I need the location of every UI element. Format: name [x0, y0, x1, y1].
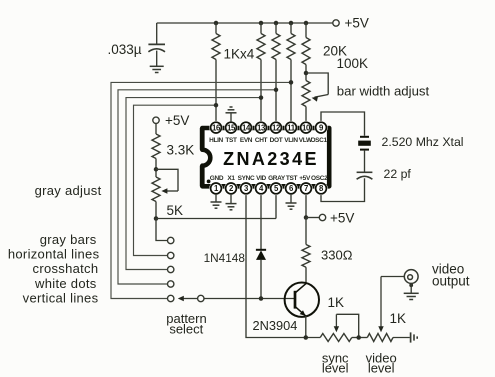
svg-text:ZNA234E: ZNA234E	[223, 149, 319, 169]
connector J1 video output	[404, 262, 469, 289]
resistor R6 3.3K	[152, 134, 194, 159]
junction: pin13 column	[259, 95, 264, 100]
wire: vertical-lines net (pin11)	[111, 82, 291, 298]
U1 pin 16	[209, 121, 222, 134]
U1 pin 1	[209, 182, 222, 195]
wire: pin 1 to ground	[215, 194, 217, 202]
U1 pin 15	[224, 121, 237, 134]
junction: +5V node	[304, 215, 309, 220]
svg-text:horizontal lines: horizontal lines	[8, 247, 100, 262]
svg-text:100K: 100K	[337, 56, 369, 71]
junction: emitter / rail	[304, 335, 309, 340]
potentiometer VR1 100K	[302, 56, 368, 107]
U1 pin 9	[314, 121, 327, 134]
terminal: gray bars	[168, 237, 174, 243]
wire: +5V node to R7	[305, 218, 307, 245]
svg-text:1K: 1K	[328, 295, 345, 310]
junction: R5 / VR1 wiper	[304, 71, 309, 76]
label bar width adjust	[337, 84, 430, 99]
svg-text:1Kx4: 1Kx4	[224, 47, 255, 62]
terminal: white dots	[168, 281, 174, 287]
arrow: VR1 wiper	[312, 95, 329, 102]
U1 pin 4	[254, 182, 267, 195]
wire: R6 to VR2	[155, 159, 157, 178]
resistor R5 20K	[302, 23, 347, 65]
svg-text:5K: 5K	[167, 203, 184, 218]
U1 pin 11	[284, 121, 297, 134]
svg-text:select: select	[169, 321, 203, 336]
svg-text:1N4148: 1N4148	[204, 251, 246, 265]
svg-text:OSC1: OSC1	[310, 137, 327, 144]
U1 pin 10	[299, 121, 312, 134]
svg-text:+5V: +5V	[330, 210, 354, 225]
resistor R2 1K (pin13 CHT)	[257, 23, 265, 60]
wire: VR1 wiper loop	[306, 73, 328, 95]
U1 pin 12	[269, 121, 282, 134]
label crosshatch	[33, 261, 99, 276]
wire: white-dots net (pin12)	[118, 90, 276, 284]
resistor R4 1K (pin11 VLIN)	[287, 23, 295, 60]
wire: R2 to pin 13	[260, 60, 262, 123]
junction: rail / R3	[274, 21, 279, 26]
terminal: +5V (gray adjust)	[153, 113, 190, 128]
svg-text:VLIN: VLIN	[284, 137, 298, 144]
svg-text:EVN: EVN	[240, 137, 253, 144]
potentiometer VR3 1K (sync level)	[320, 295, 352, 342]
potentiometer VR4 1K (video level)	[367, 311, 406, 342]
U1 top pin names	[209, 137, 327, 144]
wire: pin 3 SYNC down	[246, 194, 320, 338]
terminal: +5V (bottom)	[319, 210, 354, 225]
svg-text:GRAY: GRAY	[268, 175, 286, 182]
diode D1 1N4148	[204, 250, 267, 265]
wire: R3 to pin 12	[275, 60, 277, 123]
wire: pin 15 to ground	[230, 113, 232, 122]
wire: VR3 wiper loop	[336, 314, 358, 337]
svg-text:16: 16	[212, 123, 221, 132]
svg-text:gray bars: gray bars	[40, 232, 97, 247]
svg-text:level: level	[322, 360, 349, 375]
wire: pin 2 to ground	[230, 194, 232, 204]
label pattern select	[166, 311, 206, 337]
svg-text:gray adjust: gray adjust	[35, 183, 102, 198]
junction: rail / R4	[289, 21, 294, 26]
junction: R6 / VR2	[154, 167, 159, 172]
label gray adjust	[35, 183, 102, 198]
wire: gray node to pin 5	[156, 218, 276, 220]
U1 pin 7	[299, 182, 312, 195]
ground (pin 6)	[286, 203, 297, 209]
svg-text:white dots: white dots	[34, 276, 97, 291]
transistor Q1 2N3904	[253, 283, 319, 334]
wire: R5 to VR1	[305, 65, 307, 81]
junction: gray node	[154, 216, 159, 221]
svg-text:HLIN: HLIN	[209, 137, 223, 144]
U1 pin 14	[239, 121, 252, 134]
svg-text:+5V: +5V	[345, 16, 369, 31]
junction: rail / R5	[304, 21, 309, 26]
wire: +5V to R6	[155, 124, 157, 135]
junction: VR3/VR4 node	[356, 335, 361, 340]
ground (pin 15, inverted)	[226, 107, 237, 113]
capacitor C1 .033µ	[107, 42, 165, 57]
svg-text:X1: X1	[227, 175, 235, 182]
wire: C1 to ground	[156, 51, 158, 67]
arrow: VR3 wiper	[334, 314, 339, 332]
wire: D1 to base node	[260, 260, 262, 299]
label 1Kx4	[224, 47, 255, 62]
U1 bottom pin names	[210, 175, 328, 182]
wire: pin 6 to ground	[290, 194, 292, 203]
label white dots	[34, 276, 97, 291]
label gray bars	[40, 232, 97, 247]
capacitor C2 22 pf	[357, 167, 412, 181]
svg-text:11: 11	[287, 123, 296, 132]
wire: pin 4 to D1	[260, 194, 262, 250]
wire: VR3 to VR4	[352, 337, 368, 339]
svg-text:14: 14	[242, 123, 251, 132]
svg-text:TST: TST	[225, 137, 237, 144]
svg-text:CHT: CHT	[255, 137, 268, 144]
wire: rail to C1	[156, 23, 158, 44]
switch: pattern select pole	[198, 295, 204, 301]
arrow: VR4 wiper	[378, 277, 383, 333]
junction: D1 / pattern wire	[259, 296, 264, 301]
U1 pin 6	[284, 182, 297, 195]
svg-text:TST: TST	[286, 175, 298, 182]
svg-text:VID: VID	[256, 175, 266, 182]
potentiometer VR2 5K (gray adjust)	[152, 177, 183, 218]
U1 pin 8	[314, 182, 327, 195]
junction: pin11 column	[289, 80, 294, 85]
svg-text:crosshatch: crosshatch	[33, 261, 99, 276]
ground (C1)	[150, 66, 164, 72]
junction: rail / R2	[259, 21, 264, 26]
terminal: vertical lines	[168, 295, 174, 301]
svg-text:output: output	[432, 273, 470, 288]
ground (pin 1)	[211, 202, 222, 208]
ground (J1)	[404, 293, 419, 299]
op-amp U1 ZNA234E body	[201, 128, 329, 186]
label U1 ZNA234E	[223, 149, 319, 169]
svg-text:1K: 1K	[390, 311, 407, 326]
wire: jack to ground	[409, 283, 413, 293]
wire: crosshatch net (pin13)	[126, 98, 261, 270]
resistor R7 330Ω	[302, 245, 353, 268]
wire: gray node to gray-bars terminal	[156, 219, 167, 241]
wire: crystal to C2	[364, 151, 366, 172]
junction: pin12 column	[274, 88, 279, 93]
wire: pin 7 to +5V node	[305, 194, 307, 218]
wire: VR2 wiper loop	[156, 169, 178, 191]
svg-text:DOT: DOT	[270, 137, 283, 144]
svg-text:+5V: +5V	[165, 113, 189, 128]
svg-text:7: 7	[304, 184, 308, 193]
svg-text:12: 12	[272, 123, 281, 132]
wire: R4 to pin 11	[290, 60, 292, 123]
arrow: VR2 wiper	[161, 188, 178, 193]
wire: VR4 to termination	[393, 337, 410, 339]
svg-text:13: 13	[257, 123, 266, 132]
resistor R3 1K (pin12 DOT)	[272, 23, 280, 60]
svg-text:SYNC: SYNC	[238, 175, 255, 182]
wire: VR2 to gray node	[155, 202, 157, 219]
U1 pin-1 dot	[207, 180, 211, 184]
svg-text:22 pf: 22 pf	[384, 167, 412, 181]
terminal: +5V (top right)	[333, 16, 369, 31]
svg-text:2N3904: 2N3904	[253, 318, 298, 333]
svg-text:10: 10	[302, 123, 311, 132]
svg-text:bar width adjust: bar width adjust	[337, 84, 430, 99]
svg-text:.033µ: .033µ	[107, 42, 141, 57]
arrow: pattern select wiper	[178, 296, 198, 301]
crystal Y1 2.520 MHz	[358, 135, 463, 150]
wire: pole to base node	[204, 298, 295, 300]
wire: pin 9 to crystal	[321, 112, 365, 136]
svg-text:3.3K: 3.3K	[167, 143, 195, 158]
U1 pin 3	[239, 182, 252, 195]
svg-text:+5V: +5V	[299, 175, 311, 182]
junction: rail / R1	[214, 21, 219, 26]
ground (pin 2)	[226, 204, 237, 210]
wire: +5V supply rail (top)	[157, 22, 333, 24]
wire: horizontal-lines net (pin16)	[134, 105, 217, 255]
wire: R7 to collector	[305, 267, 307, 283]
U1 pin 5	[269, 182, 282, 195]
terminal: horizontal lines	[168, 252, 174, 258]
svg-text:15: 15	[227, 123, 236, 132]
U1 pin 2	[224, 182, 237, 195]
label video level	[366, 351, 397, 376]
label horizontal lines	[8, 247, 100, 262]
U1 pin 13	[254, 121, 267, 134]
label sync level	[322, 351, 349, 376]
wire: R1 to pin 16	[215, 60, 217, 123]
svg-text:2.520 Mhz Xtal: 2.520 Mhz Xtal	[382, 135, 464, 149]
wire: pin 5 stub	[275, 194, 277, 219]
svg-text:330Ω: 330Ω	[321, 247, 353, 262]
resistor R1 1K (pin16 HLIN)	[212, 23, 220, 60]
terminal: crosshatch	[168, 266, 174, 272]
label vertical lines	[23, 290, 99, 305]
svg-text:vertical lines: vertical lines	[23, 290, 99, 305]
wire: +5V node to terminal	[306, 217, 319, 219]
svg-text:GND: GND	[210, 175, 224, 182]
termination (chassis)	[411, 332, 418, 342]
junction: pin16 column	[214, 103, 219, 108]
wire: C2 to pin 8	[321, 178, 365, 201]
wire: emitter down	[305, 316, 307, 338]
wire: wiper to jack	[381, 276, 404, 278]
wire: VR1 to pin 10	[305, 107, 307, 123]
svg-text:OSC2: OSC2	[311, 175, 328, 182]
svg-text:level: level	[368, 360, 395, 375]
